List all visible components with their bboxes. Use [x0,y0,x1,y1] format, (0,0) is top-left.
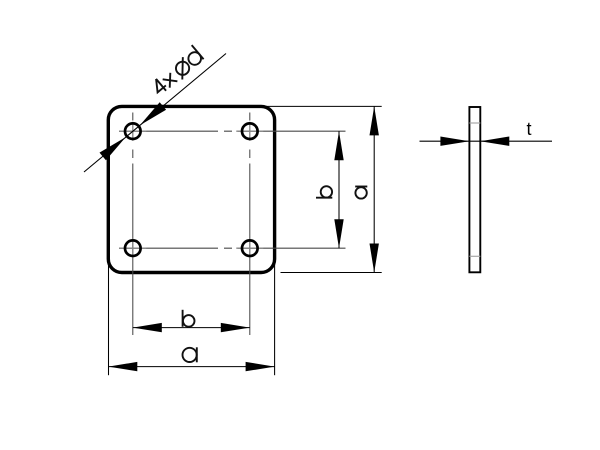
dimension line b bottom [133,327,250,329]
leader arrowhead lower [100,137,126,160]
dimension line t thickness [420,140,553,142]
side view plate rectangle [469,107,480,272]
hole center cross ticks [119,122,263,258]
plate front view outline [108,106,274,272]
extension lines bottom a dimension [109,264,275,375]
dimension line a bottom [108,366,274,368]
leader arrowhead upper [140,102,166,125]
side view hidden hole line bottom [469,255,480,257]
centerline horizontal bottom holes [119,247,346,249]
leader line for hole callout [84,54,226,173]
hole bottom-right [242,240,258,256]
hole top-right [242,123,258,139]
centerline horizontal top holes [119,113,346,336]
side view hidden hole line top [469,122,480,124]
label b bottom [183,310,195,327]
hole top-left [125,123,141,139]
dimension line a right vertical [373,106,375,272]
label 4x Od rotated along leader [148,45,204,97]
centerline vertical left holes [132,113,134,336]
dimension line b right vertical [338,131,340,248]
label b right rotated [316,186,332,198]
label a bottom [183,347,197,362]
svg-text:t: t [526,119,531,139]
centerline vertical right holes [249,113,251,336]
extension lines right side dimensions [265,106,382,272]
label a right rotated [355,187,367,199]
hole bottom-left [125,240,141,256]
